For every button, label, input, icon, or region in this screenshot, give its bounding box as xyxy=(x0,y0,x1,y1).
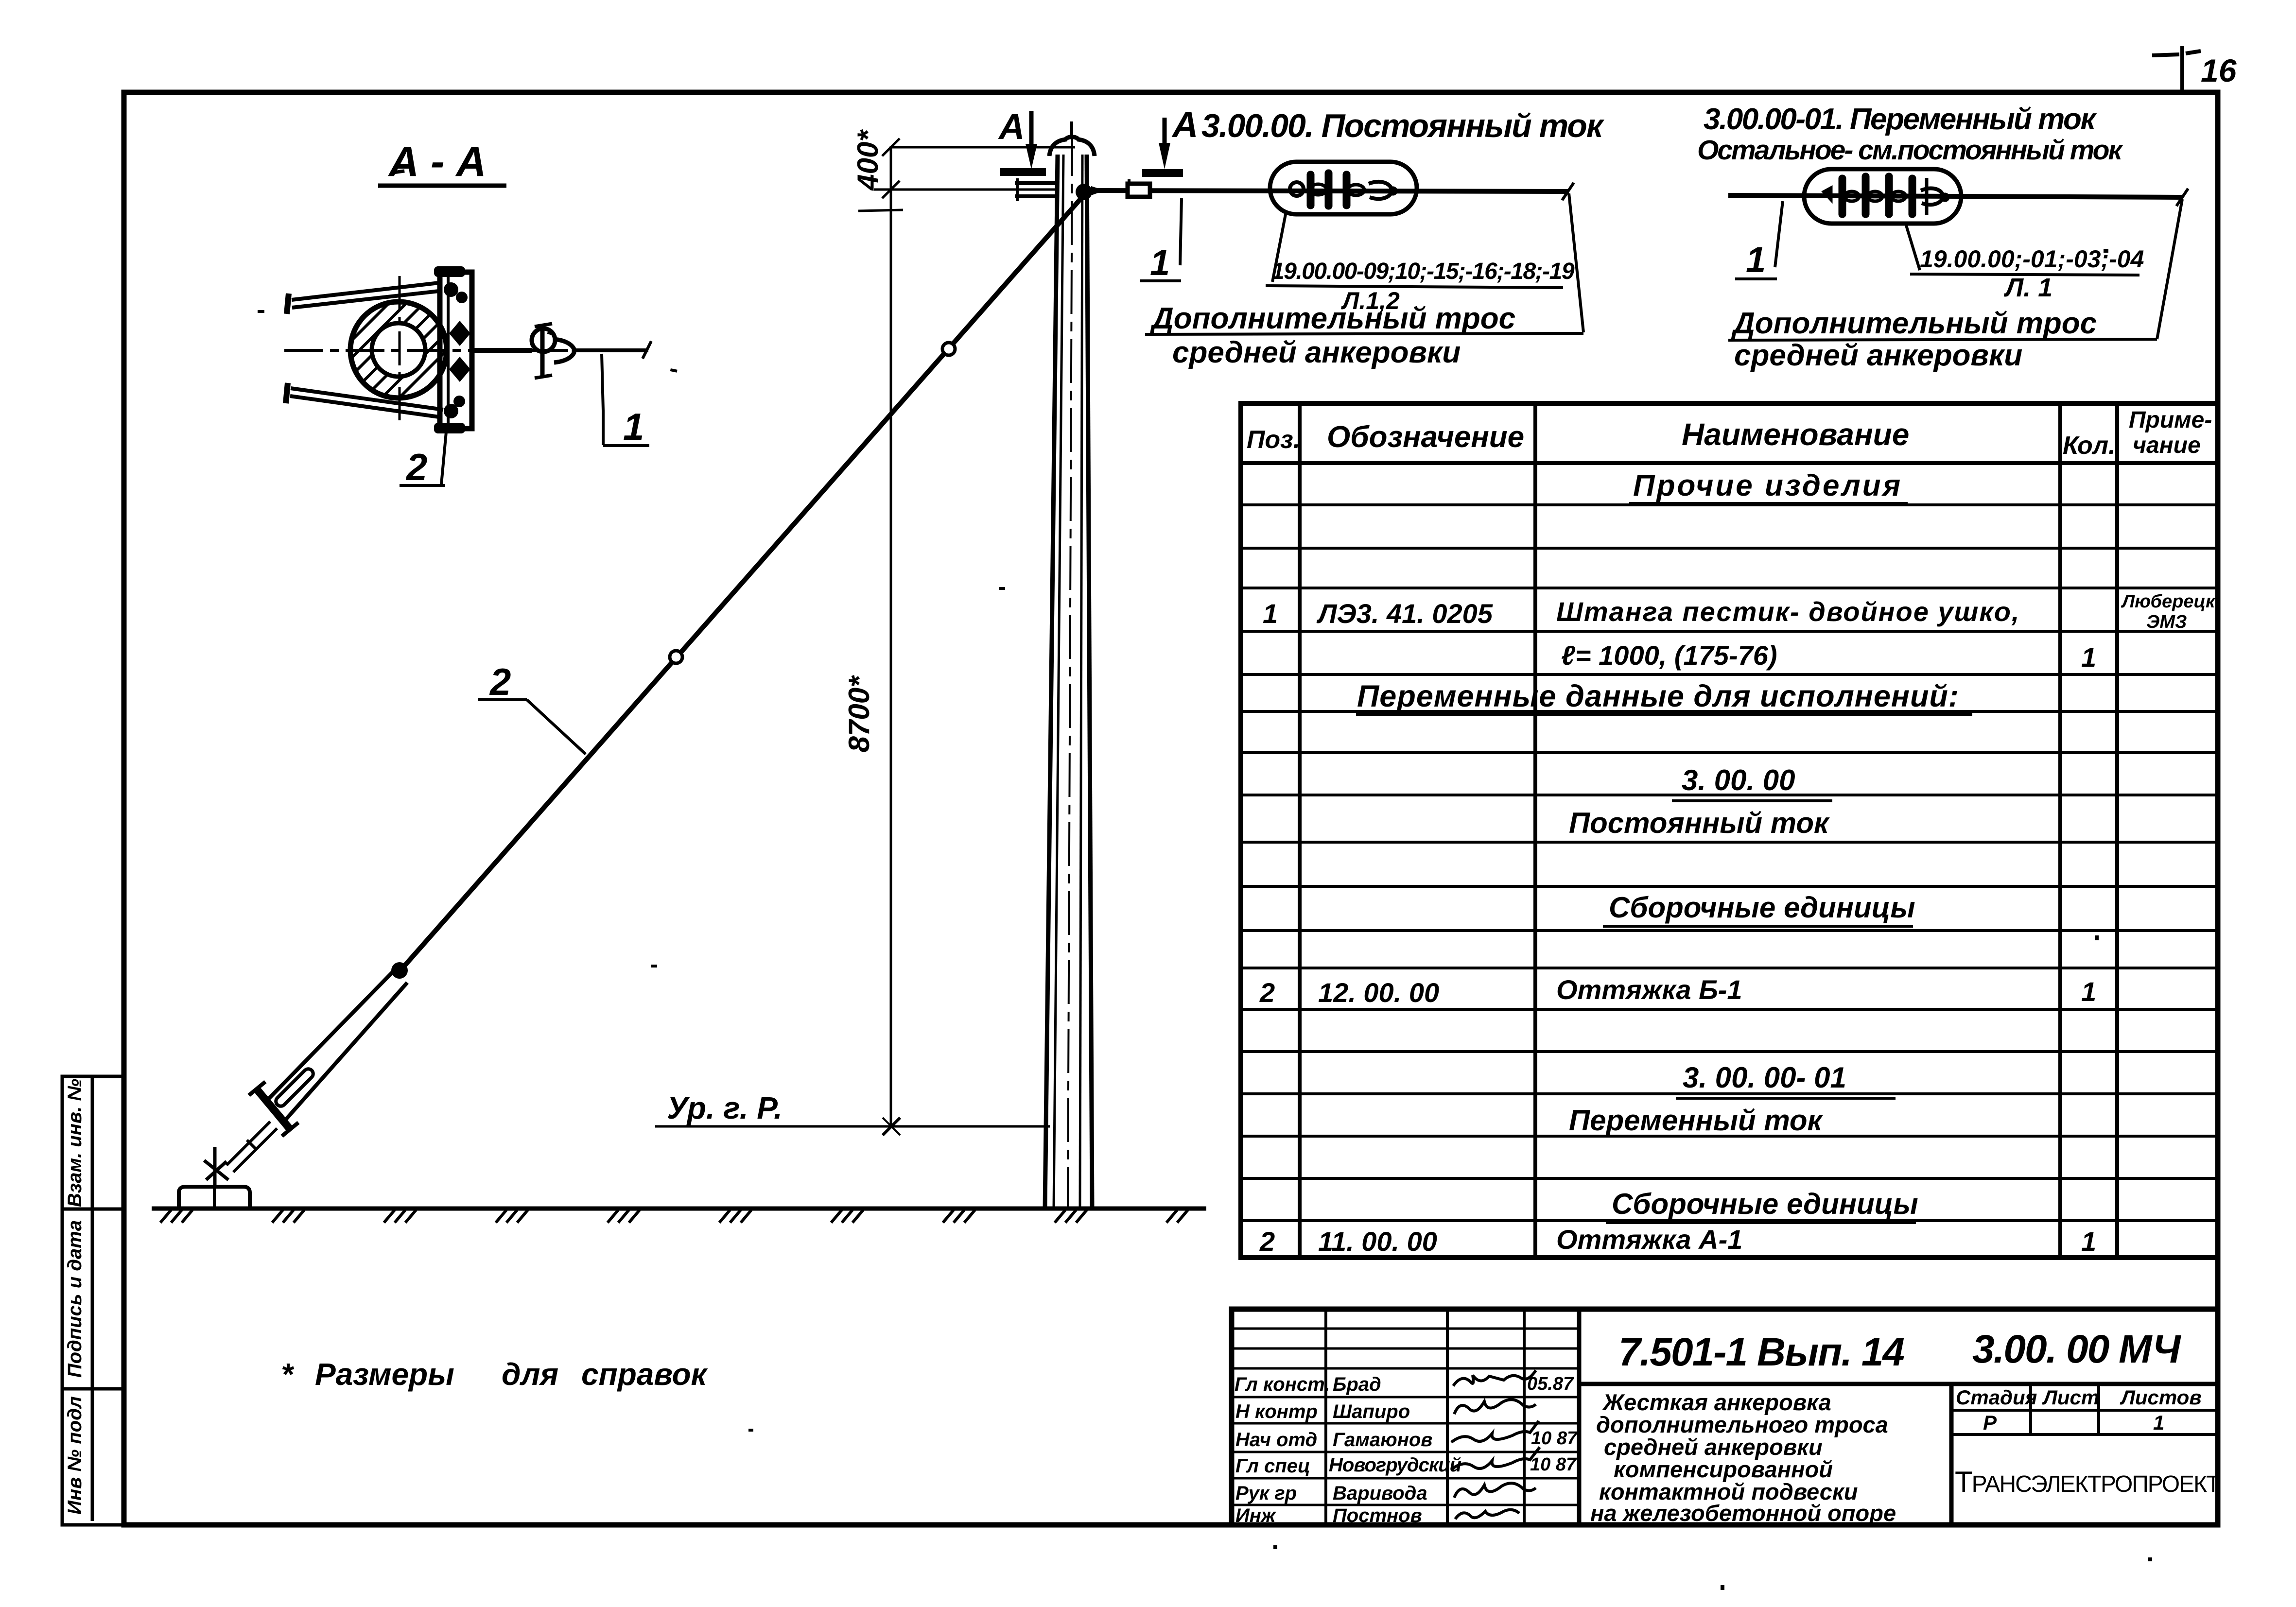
svg-text:1: 1 xyxy=(623,405,644,448)
plate diamond bolt heads xyxy=(449,321,470,382)
svg-text:Люберецк.: Люберецк. xyxy=(2121,591,2220,612)
svg-text:Оттяжка А-1: Оттяжка А-1 xyxy=(1556,1224,1742,1255)
svg-text:Приме-: Приме- xyxy=(2129,407,2212,433)
threaded anchor rod xyxy=(226,1122,277,1172)
svg-text:Штанга пестик- двойное ушко,: Штанга пестик- двойное ушко, xyxy=(1556,596,2020,627)
drawing title text xyxy=(1590,1389,1896,1526)
table row Прочие изделия xyxy=(1629,469,1908,503)
svg-text:10 87: 10 87 xyxy=(1531,1428,1578,1449)
handwritten signatures xyxy=(1451,1370,1540,1519)
guy wire joint ring lower xyxy=(670,651,682,663)
svg-text:11. 00. 00: 11. 00. 00 xyxy=(1318,1226,1437,1257)
callout 2 of guy wire xyxy=(478,699,586,754)
svg-text:Гл конст.: Гл конст. xyxy=(1235,1374,1330,1395)
svg-text:Обозначение: Обозначение xyxy=(1327,420,1524,454)
svg-text:Л. 1: Л. 1 xyxy=(2003,273,2052,302)
svg-text:ℓ= 1000, (175-76): ℓ= 1000, (175-76) xyxy=(1561,640,1777,671)
title block grid xyxy=(1232,1309,2218,1525)
svg-text:Подпись и дата: Подпись и дата xyxy=(64,1220,86,1378)
ground line xyxy=(152,1207,1206,1211)
rope end tick right xyxy=(1562,183,1574,200)
table row 3.00.00-01 xyxy=(1676,1061,1896,1098)
specification table grid xyxy=(1241,403,2218,1258)
svg-text:Гл спец: Гл спец xyxy=(1235,1455,1310,1477)
svg-text:19.00.00-09;10;-15;-16;-18;-19: 19.00.00-09;10;-15;-16;-18;-19 xyxy=(1271,259,1575,284)
scan speck marks xyxy=(258,169,2152,1590)
svg-text:средней анкеровки: средней анкеровки xyxy=(1734,339,2022,372)
svg-text:А: А xyxy=(1171,104,1198,145)
svg-text:3.00. 00 МЧ: 3.00. 00 МЧ xyxy=(1972,1327,2182,1371)
svg-text:Сборочные единицы: Сборочные единицы xyxy=(1612,1188,1918,1220)
concrete pole (elevation) xyxy=(1045,155,1092,1209)
svg-text:2: 2 xyxy=(489,660,511,703)
wire stub from plate xyxy=(472,348,532,353)
svg-text:Размеры: Размеры xyxy=(315,1357,454,1392)
svg-text:19.00.00;-01;-03;-04: 19.00.00;-01;-03;-04 xyxy=(1920,245,2144,273)
signature rows names xyxy=(1329,1374,1461,1526)
svg-text:Гамаюнов: Гамаюнов xyxy=(1333,1429,1432,1451)
eye bolt with pin (А-А view) xyxy=(532,324,574,378)
svg-text:7.501-1 Вып. 14: 7.501-1 Вып. 14 xyxy=(1618,1330,1904,1374)
section arrow А right xyxy=(1142,104,1198,173)
svg-text:Рук гр: Рук гр xyxy=(1235,1483,1297,1504)
svg-text:Стадия: Стадия xyxy=(1956,1386,2037,1409)
svg-text:12. 00. 00: 12. 00. 00 xyxy=(1318,977,1439,1008)
svg-text:Новогрудский: Новогрудский xyxy=(1329,1454,1461,1476)
svg-text:Нач отд: Нач отд xyxy=(1235,1429,1317,1451)
svg-text:Дополнительный трос: Дополнительный трос xyxy=(1731,307,2097,340)
svg-text:ЭМЗ: ЭМЗ xyxy=(2146,612,2187,632)
svg-text:1: 1 xyxy=(1150,242,1170,283)
guy wire (оттяжка) xyxy=(403,196,1083,967)
callout label 1 (left drawing) xyxy=(1140,198,1182,281)
horizontal centre line of А-А view xyxy=(284,349,650,352)
svg-text:3. 00. 00- 01: 3. 00. 00- 01 xyxy=(1683,1061,1846,1094)
svg-text:на железобетонной опоре: на железобетонной опоре xyxy=(1590,1500,1896,1526)
svg-text:2: 2 xyxy=(1259,1226,1275,1257)
signature rows labels xyxy=(1235,1374,1330,1526)
svg-text:Прочие изделия: Прочие изделия xyxy=(1633,469,1902,502)
table row Переменные данные xyxy=(1356,679,1972,714)
svg-text:ЛЭ3. 41. 0205: ЛЭ3. 41. 0205 xyxy=(1316,598,1493,629)
svg-text:1: 1 xyxy=(1746,240,1766,280)
svg-text:8700*: 8700* xyxy=(843,675,875,752)
table row 2 12.00.00 Оттяжка Б-1 xyxy=(1259,974,2096,1008)
svg-text:Переменный ток: Переменный ток xyxy=(1569,1104,1824,1137)
rail head level line Ур.г.Р. xyxy=(655,1090,1050,1135)
svg-text:*: * xyxy=(281,1357,295,1392)
svg-text:Кол.: Кол. xyxy=(2063,432,2116,460)
svg-text:Оттяжка Б-1: Оттяжка Б-1 xyxy=(1556,974,1742,1005)
svg-text:Постоянный ток: Постоянный ток xyxy=(1569,807,1830,839)
anchor eye cross xyxy=(204,1147,228,1188)
foundation block xyxy=(179,1187,250,1208)
callout label 1 (right drawing) xyxy=(1735,201,1783,279)
svg-text:Листов: Листов xyxy=(2120,1386,2202,1409)
ground hatching xyxy=(160,1210,1188,1223)
svg-text:Инж: Инж xyxy=(1235,1505,1277,1526)
svg-text:Шапиро: Шапиро xyxy=(1333,1401,1410,1422)
svg-text:А - А: А - А xyxy=(388,138,487,185)
pole centre axis xyxy=(1068,132,1072,1209)
svg-text:средней анкеровки: средней анкеровки xyxy=(1172,336,1461,369)
table header Примечание xyxy=(2129,407,2212,458)
svg-text:Остальное- см.постоянный ток: Остальное- см.постоянный ток xyxy=(1697,135,2123,166)
pole cross-section ring (А-А view) xyxy=(175,253,632,447)
svg-text:1: 1 xyxy=(1263,598,1278,629)
vertical centre line of ring xyxy=(399,276,401,420)
insulator assembly left (oval) xyxy=(1270,162,1417,214)
svg-text:Постнов: Постнов xyxy=(1333,1505,1422,1526)
svg-text:3.00.00. Постоянный ток: 3.00.00. Постоянный ток xyxy=(1201,107,1605,144)
svg-text:Р: Р xyxy=(1983,1411,1997,1434)
svg-text:Переменные данные для испол: Переменные данные для исполнений: xyxy=(1357,679,1959,713)
anchor clamp on pole xyxy=(1015,178,1058,201)
extension line at wire level xyxy=(874,189,1058,191)
turnbuckle body of guy xyxy=(266,972,407,1121)
svg-text:1: 1 xyxy=(2081,976,2096,1007)
section label А-А xyxy=(378,138,506,186)
svg-text:1: 1 xyxy=(2081,1226,2096,1257)
stage header Стадия Лист Листов xyxy=(1956,1386,2202,1434)
guy wire joint ring upper xyxy=(942,343,955,355)
upper stay rod (А-А view) xyxy=(287,283,439,314)
signature dates xyxy=(1527,1374,1578,1475)
vertical dimension line xyxy=(858,138,1075,1126)
callout lines of left insulator xyxy=(1266,193,1583,332)
callout 1 leader (А-А view) xyxy=(602,354,649,446)
table row 3.00.00 xyxy=(1672,764,1832,801)
table row l=1000 xyxy=(1561,640,2096,673)
left margin stamp boxes xyxy=(62,1076,124,1525)
callout 2 leader (А-А view) xyxy=(400,427,447,485)
svg-text:3. 00. 00: 3. 00. 00 xyxy=(1682,764,1795,796)
svg-text:Ур. г. Р.: Ур. г. Р. xyxy=(667,1090,783,1125)
svg-text:чание: чание xyxy=(2133,432,2201,458)
svg-text:10 87: 10 87 xyxy=(1530,1454,1577,1475)
svg-text:Взам. инв. №: Взам. инв. № xyxy=(64,1079,86,1207)
svg-text:1: 1 xyxy=(2153,1411,2164,1434)
svg-text:А: А xyxy=(998,106,1025,147)
svg-text:Поз.: Поз. xyxy=(1247,426,1300,454)
adjusting crossbar xyxy=(249,1082,298,1136)
svg-text:2: 2 xyxy=(1259,977,1275,1008)
table row Сборочные единицы 2 xyxy=(1606,1188,1918,1223)
wire attachment node on pole xyxy=(1076,184,1105,200)
svg-text:Дополнительный трос: Дополнительный трос xyxy=(1149,302,1515,335)
svg-text:05.87: 05.87 xyxy=(1527,1374,1574,1394)
plate top bolt cluster xyxy=(434,266,468,303)
svg-text:Н контр: Н контр xyxy=(1235,1401,1318,1422)
svg-text:Лист: Лист xyxy=(2042,1386,2099,1409)
svg-text:1: 1 xyxy=(2081,642,2096,673)
insulator assembly right (oval) xyxy=(1728,169,2188,224)
svg-text:Инв № подл: Инв № подл xyxy=(64,1396,86,1515)
svg-text:справок: справок xyxy=(581,1357,709,1392)
section arrow А left xyxy=(998,106,1046,172)
anchor plate on pole xyxy=(440,272,472,429)
svg-text:16: 16 xyxy=(2201,52,2237,88)
wire to the right with end tick xyxy=(574,341,651,359)
table row 2 11.00.00 Оттяжка А-1 xyxy=(1259,1224,2096,1257)
sheet number 16 with tick xyxy=(2152,46,2201,93)
svg-text:Брад: Брад xyxy=(1333,1374,1381,1395)
callout lines of right insulator xyxy=(1906,199,2182,339)
svg-text:Наименование: Наименование xyxy=(1682,417,1909,452)
turnbuckle link on rope xyxy=(1128,179,1150,197)
svg-text:400*: 400* xyxy=(852,129,884,191)
table row Сборочные единицы 1 xyxy=(1603,891,1915,926)
svg-text:Сборочные единицы: Сборочные единицы xyxy=(1609,891,1915,924)
svg-text:для: для xyxy=(502,1357,558,1392)
svg-text:Варивода: Варивода xyxy=(1333,1483,1427,1504)
lower stay rod (А-А view) xyxy=(286,383,443,417)
pole top cap xyxy=(1049,121,1095,156)
svg-text:3.00.00-01. Переменный ток: 3.00.00-01. Переменный ток xyxy=(1704,103,2097,136)
table row 1 ЛЭ3.41.0205 Штанга xyxy=(1263,591,2220,632)
plate bottom bolt cluster xyxy=(434,396,465,433)
svg-text:2: 2 xyxy=(405,446,427,488)
additional anchor rope (horizontal) xyxy=(1095,190,1569,191)
guy rod connector dot xyxy=(391,962,408,979)
